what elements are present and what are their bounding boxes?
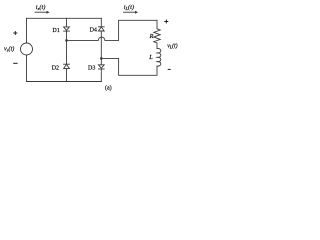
svg-text:D2: D2: [52, 66, 59, 72]
diode D3 symbol: [98, 65, 104, 69]
current arrow iL: [124, 11, 136, 13]
wire left branch middle: [66, 31, 68, 64]
junction node right (DC-): [100, 57, 103, 60]
wire bottom rail: [27, 81, 102, 83]
wire right branch upper: [100, 18, 102, 27]
diode D4 symbol: [98, 27, 104, 31]
wire negative output return: [101, 58, 157, 75]
label plus load: [164, 20, 168, 24]
label minus source: [13, 62, 17, 64]
label minus load: [168, 68, 171, 70]
label plus source: [13, 31, 17, 35]
wire right branch lower: [100, 69, 102, 82]
wire left branch lower: [66, 69, 68, 82]
svg-text:vs(t): vs(t): [4, 45, 14, 52]
svg-text:vL(t): vL(t): [167, 42, 177, 49]
source vs(t) circle: [21, 43, 33, 55]
diode D1 symbol: [64, 27, 70, 31]
junction node left (DC+): [65, 39, 68, 42]
current arrow is: [35, 11, 47, 13]
resistor R: [154, 20, 160, 48]
svg-text:is(t): is(t): [36, 4, 46, 11]
wire right branch middle: [100, 31, 102, 65]
svg-text:R: R: [149, 33, 154, 40]
svg-text:iL(t): iL(t): [124, 4, 134, 11]
wire top rail: [27, 17, 102, 19]
inductor L: [157, 48, 161, 66]
diode D2 symbol: [64, 64, 70, 68]
svg-text:L: L: [148, 54, 153, 61]
svg-text:D4: D4: [90, 27, 97, 33]
arrowhead iL: [135, 11, 138, 14]
arrowhead is: [47, 11, 50, 14]
wire source left vertical bottom: [26, 55, 28, 82]
svg-text:D3: D3: [88, 65, 95, 71]
wire left branch upper: [66, 18, 68, 27]
wire positive output with crossover hop: [67, 20, 158, 40]
svg-text:D1: D1: [52, 28, 59, 34]
wire source left vertical top: [26, 18, 28, 43]
svg-text:(a): (a): [105, 84, 112, 91]
